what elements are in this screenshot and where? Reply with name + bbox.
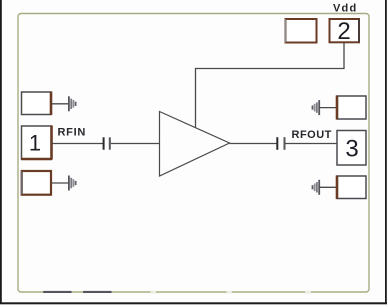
pad P8 (bottom-left ground pad) (22, 171, 51, 195)
pad P7 (bottom-right ground pad) (337, 176, 366, 200)
ground (bottom-left) (69, 176, 76, 191)
pad 1 (RFIN) (21, 126, 52, 160)
svg-text:RFIN: RFIN (58, 126, 86, 138)
op-amp U1 (amplifier triangle) (160, 112, 230, 177)
wire amplifier output to capacitor C2 (230, 143, 278, 145)
wire ground to pad P6 (319, 107, 337, 109)
svg-text:1: 1 (29, 131, 41, 156)
wire Vdd net: pad 2 down, across, into amplifier (196, 42, 345, 128)
pad P4 (top-left ground pad) (22, 92, 52, 116)
pad P5 (top-middle unconnected pad) (286, 19, 317, 43)
pad 3 (RFOUT) (337, 131, 366, 166)
svg-text:Vdd: Vdd (333, 3, 357, 15)
wire pad P8 to ground (51, 182, 69, 184)
capacitor C2 (output DC block) (277, 137, 284, 150)
capacitor C1 (input DC block) (104, 137, 110, 149)
pad 2 (Vdd) (330, 18, 360, 45)
ground (bottom-right) (313, 180, 320, 195)
ground (top-left) (69, 96, 76, 111)
wire capacitor C1 to amplifier input (111, 143, 160, 145)
pad P6 (top-right ground pad) (337, 96, 366, 120)
wire pad P4 to ground (51, 103, 69, 105)
svg-text:3: 3 (345, 136, 358, 163)
ground (top-right) (313, 100, 320, 115)
wire ground to pad P7 (319, 186, 337, 188)
wire capacitor C2 to pad 3 (286, 143, 338, 145)
svg-text:2: 2 (337, 18, 350, 45)
wire pad 1 to capacitor C1 (52, 143, 104, 145)
svg-text:RFOUT: RFOUT (292, 129, 332, 141)
